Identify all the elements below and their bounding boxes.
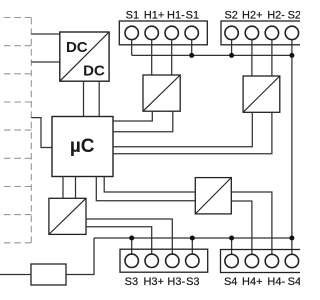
svg-text:H3+: H3+ [143, 276, 164, 288]
terminal block S4/H4 [221, 250, 311, 273]
wire bus to uC [31, 118, 52, 148]
terminal block S1/H1 labels [126, 9, 199, 21]
wire S4 terminal 1 up [231, 238, 233, 254]
isolation amplifier 3 [195, 178, 231, 214]
wire DC/DC to uC left [83, 81, 85, 116]
supply box bottom left [31, 264, 66, 285]
junction S3-4 [190, 236, 195, 241]
isolation amplifier 1 [143, 75, 180, 111]
wire uC to iso3 in B [96, 177, 195, 201]
wire S2 terminal 4 / right edge S bus down [291, 40, 293, 255]
terminal block S3/H3 [120, 249, 208, 272]
svg-text:S4: S4 [224, 276, 237, 288]
microcontroller uC [52, 117, 113, 177]
junction S4-4 [289, 236, 294, 241]
terminal block S2/H2 [221, 21, 311, 45]
svg-text:S3: S3 [186, 276, 199, 288]
terminal block S1/H1 [119, 21, 207, 45]
wire iso3 to H4+ [231, 201, 252, 254]
junction S3-1 [129, 236, 134, 241]
junction S2-4 [289, 53, 294, 58]
wire iso1 out B to uC [113, 111, 173, 132]
junction S4-1 [229, 236, 234, 241]
wire bus to DC/DC upper [31, 33, 60, 35]
wire S1 terminal 1 down [131, 40, 133, 56]
svg-text:H4-: H4- [267, 276, 285, 288]
wire iso4 to H3+ [86, 227, 152, 254]
junction S2-1 [229, 53, 234, 58]
wire H2- to iso amp 2 [271, 40, 273, 76]
wire left edge to supply box [0, 274, 31, 276]
svg-text:DC: DC [83, 62, 105, 79]
wire S3 terminal 4 up [191, 238, 193, 254]
wire DC/DC to uC right [98, 81, 100, 116]
wire H1+ to iso amp 1 [151, 40, 153, 75]
bus connector (dashed, left) [0, 18, 31, 243]
svg-text:S4: S4 [288, 276, 300, 288]
svg-text:S2: S2 [288, 9, 300, 21]
wire H1- to iso amp 1 [171, 40, 173, 75]
svg-text:S1: S1 [186, 9, 199, 21]
wire H2+ to iso amp 2 [251, 40, 253, 76]
svg-text:H2-: H2- [267, 9, 285, 21]
wire iso2 out B to uC [113, 112, 272, 153]
svg-text:H3-: H3- [167, 276, 185, 288]
wire supply box to S bus bottom [66, 238, 94, 275]
terminal block S4/H4 labels [224, 276, 301, 288]
svg-text:DC: DC [66, 39, 88, 56]
wire uC to iso4 in A [62, 177, 64, 199]
wire S1 terminal 4 down [191, 40, 193, 56]
wire iso1 out A to uC [113, 111, 152, 121]
wire S3 terminal 1 up [131, 238, 133, 254]
terminal block S2/H2 labels [224, 9, 301, 21]
svg-text:S1: S1 [126, 9, 139, 21]
S bus top [132, 54, 292, 56]
wire iso4 to H3- [86, 219, 172, 254]
wire S2 terminal 1 down [231, 40, 233, 56]
DC/DC converter [60, 32, 109, 81]
wire uC to iso3 in A [104, 177, 195, 193]
wire iso3 to H4- [231, 192, 272, 254]
svg-text:H1+: H1+ [144, 9, 165, 21]
isolation amplifier 2 [243, 76, 280, 112]
wire iso2 out A to uC [113, 112, 252, 146]
svg-text:H2+: H2+ [242, 9, 263, 21]
svg-text:S2: S2 [224, 9, 237, 21]
terminal block S3/H3 labels [125, 276, 200, 288]
svg-text:H4+: H4+ [242, 276, 263, 288]
S bus bottom [94, 237, 292, 239]
svg-text:H1-: H1- [167, 9, 185, 21]
isolation amplifier 4 [49, 198, 86, 234]
svg-text:µC: µC [70, 136, 95, 157]
wire uC to iso4 in B [75, 177, 77, 199]
junction S1-4 [189, 53, 194, 58]
wire bus to DC/DC lower [31, 61, 60, 63]
svg-text:S3: S3 [125, 276, 138, 288]
